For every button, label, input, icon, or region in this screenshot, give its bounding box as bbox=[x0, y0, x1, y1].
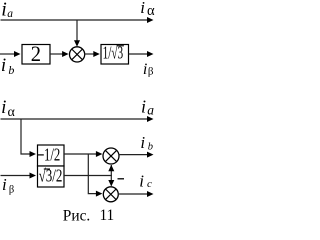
arrow into M3 left bbox=[96, 191, 103, 197]
arrow into M2 left bbox=[96, 151, 103, 157]
svg-text:α: α bbox=[147, 3, 155, 19]
wire i_alpha horizontal line bbox=[1, 118, 149, 120]
value label sqrt(3)/2 bbox=[39, 166, 63, 186]
arrow into M1 top bbox=[74, 40, 80, 47]
svg-text:i: i bbox=[140, 0, 145, 17]
value label -1/2 bbox=[38, 145, 60, 165]
svg-text:b: b bbox=[148, 141, 153, 152]
svg-text:i: i bbox=[1, 97, 6, 118]
node i_b label (right output) bbox=[140, 133, 153, 152]
arrow output i_a bbox=[147, 116, 154, 122]
svg-text:√3/2: √3/2 bbox=[39, 166, 63, 186]
svg-text:Рис.: Рис. bbox=[63, 207, 90, 224]
arrow output i_c bbox=[147, 191, 154, 197]
wire output i_beta bbox=[129, 53, 149, 55]
svg-text:c: c bbox=[147, 178, 152, 190]
svg-text:a: a bbox=[147, 102, 154, 117]
wire sqrt3/2 output to vertical node bbox=[64, 175, 112, 177]
svg-text:1/2: 1/2 bbox=[44, 145, 60, 165]
svg-text:α: α bbox=[8, 105, 16, 120]
arrow into sqrt3/2 block bbox=[30, 173, 37, 179]
wire branch down to multiplier M1 bbox=[76, 20, 78, 41]
svg-text:β: β bbox=[148, 66, 154, 78]
arrow down into M3 top bbox=[108, 180, 114, 187]
value label 1/sqrt(3) bbox=[103, 43, 124, 63]
minus sign at M3 input bbox=[118, 178, 125, 180]
svg-text:1: 1 bbox=[107, 207, 115, 224]
wire M2 output i_b bbox=[119, 154, 148, 156]
wire i_beta input bbox=[1, 175, 30, 177]
multiplier M1 (circle with X) bbox=[70, 47, 85, 62]
wire M1 to block 1/sqrt3 bbox=[84, 53, 93, 55]
wire i_a horizontal line bbox=[1, 19, 149, 21]
node i_b label (left input) bbox=[1, 55, 15, 77]
gain block "2" bbox=[22, 45, 50, 65]
arrow into block 1/sqrt3 bbox=[93, 51, 100, 57]
svg-text:i: i bbox=[143, 61, 147, 78]
caption Рис. 11 bbox=[63, 207, 114, 224]
svg-text:β: β bbox=[9, 184, 14, 195]
arrow output i_alpha bbox=[147, 17, 154, 23]
arrow into -1/2 block bbox=[30, 151, 37, 157]
node i_alpha label (bottom diagram left input) bbox=[1, 97, 15, 120]
gain block "sqrt3/2" bbox=[38, 166, 65, 187]
wire gain 2 to M1 bbox=[50, 53, 63, 55]
wire M3 output i_c bbox=[118, 193, 148, 195]
multiplier M3 (circle with X) bbox=[103, 187, 118, 202]
node i_beta label (bottom diagram left input) bbox=[2, 175, 14, 195]
svg-text:i: i bbox=[141, 96, 146, 116]
svg-text:b: b bbox=[8, 63, 14, 77]
node i_beta label (right output of top diagram) bbox=[143, 61, 154, 78]
wire branch from i_alpha down to -1/2 block bbox=[21, 119, 30, 154]
svg-text:i: i bbox=[1, 0, 7, 20]
node i_a label (top-left input) bbox=[1, 0, 13, 20]
svg-text:a: a bbox=[7, 8, 13, 20]
svg-text:i: i bbox=[140, 133, 145, 152]
svg-text:i: i bbox=[139, 171, 144, 190]
svg-text:2: 2 bbox=[31, 41, 41, 66]
gain block "1/sqrt3" bbox=[101, 45, 129, 65]
arrow output i_b bbox=[147, 152, 154, 158]
wire i_b input bbox=[0, 53, 15, 55]
node i_c label (right output) bbox=[139, 171, 152, 190]
multiplier M2 (circle with X) bbox=[103, 148, 119, 164]
node i_a label (bottom-right output) bbox=[141, 96, 154, 117]
node i_alpha label (top-right output) bbox=[140, 0, 155, 19]
wire vertical between M2 and M3 bbox=[110, 165, 112, 186]
wire -1/2 output to M2 bbox=[64, 153, 96, 155]
arrow into gain block 2 bbox=[14, 51, 21, 57]
svg-text:i: i bbox=[1, 55, 6, 76]
arrow output i_beta bbox=[147, 51, 154, 57]
arrow up into M2 bottom bbox=[108, 165, 114, 172]
wire branch down from -1/2 line to M3 bbox=[88, 154, 96, 194]
svg-text:i: i bbox=[2, 175, 7, 194]
arrow into M1 left bbox=[62, 51, 69, 57]
gain block "-1/2" bbox=[38, 145, 65, 166]
